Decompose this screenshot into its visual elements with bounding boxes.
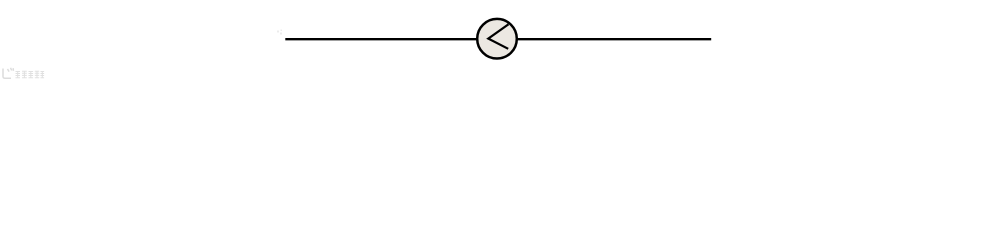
wire: [517, 38, 711, 40]
watermark smudge: [277, 30, 282, 35]
source U1 (circle with < symbol): [477, 19, 517, 59]
watermark logo: [3, 68, 13, 79]
wire: [285, 38, 477, 40]
< symbol: [488, 24, 508, 49]
watermark text: [16, 71, 45, 78]
